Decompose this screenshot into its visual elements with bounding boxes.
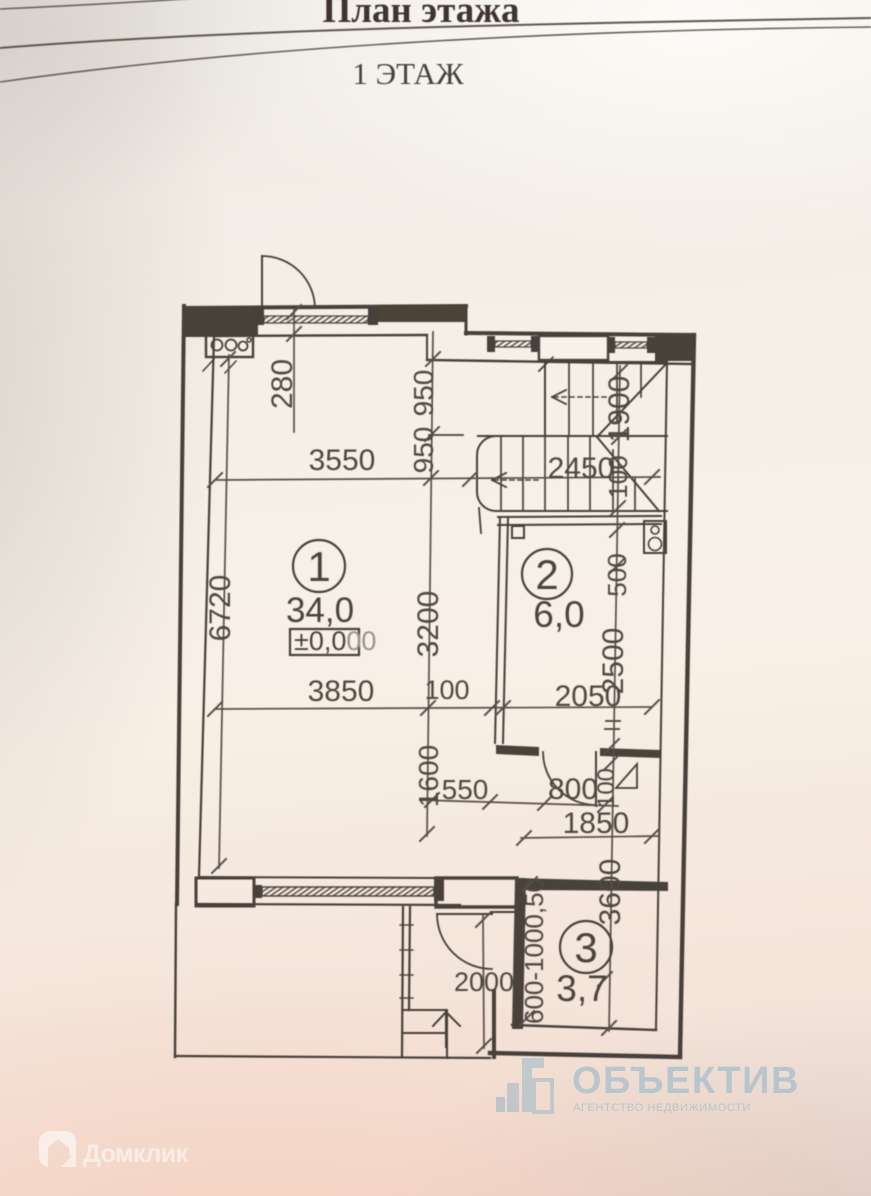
- svg-text:3550: 3550: [309, 444, 376, 477]
- logo Объектив: icon bars: [496, 1097, 505, 1112]
- svg-text:3200: 3200: [412, 591, 445, 658]
- room 1 number circle: [293, 540, 345, 592]
- wall: dark segment right of top window: [372, 306, 466, 322]
- room 3 wall: bottom inner line: [512, 1025, 656, 1030]
- stove: 4-burner in room 1 corner: [206, 334, 253, 357]
- wall: left outer face: [177, 306, 184, 904]
- header rule 1: [0, 18, 871, 48]
- door: entrance at top (swing arc): [262, 256, 315, 308]
- door: vestibule (leaf): [437, 913, 492, 915]
- svg-text:АГЕНТСТВО НЕДВИЖИМОСТИ: АГЕНТСТВО НЕДВИЖИМОСТИ: [573, 1102, 751, 1114]
- svg-text:1: 1: [307, 543, 330, 590]
- wall: entrance block between window and vestibule: [436, 878, 517, 907]
- bottom window cap left: [253, 885, 262, 898]
- svg-text:Домклик: Домклик: [83, 1140, 189, 1168]
- wall: top-left outer face: [184, 306, 466, 308]
- wall: right outer face: [680, 335, 694, 1056]
- svg-text:6,0: 6,0: [533, 594, 584, 635]
- dim slashes near room 3 left wall: [523, 877, 537, 891]
- svg-text:1900: 1900: [603, 376, 636, 443]
- wall: top-left corner block (filled): [184, 306, 258, 337]
- bottom window cap right: [434, 879, 444, 901]
- window: top wall of room 1 (hatched band): [264, 316, 368, 323]
- svg-text:6720: 6720: [204, 575, 237, 642]
- stairs: U-turn curve: [477, 436, 496, 511]
- dim line: 280 vertical: [293, 308, 295, 432]
- window 2 cap left: [607, 337, 615, 353]
- tick slashes below stove: [203, 359, 214, 371]
- door: vestibule (swing arc): [437, 914, 492, 969]
- elevation mark box: [290, 629, 359, 655]
- window cap right: [368, 307, 378, 325]
- stairs: lower treads: [500, 436, 502, 511]
- svg-text:100: 100: [603, 455, 633, 498]
- porch bottom line: [175, 1056, 490, 1058]
- room 2 corner notch: [512, 526, 524, 538]
- step line under entrance block: [491, 911, 517, 913]
- wall: dark vertical at vestibule right: [492, 991, 496, 1057]
- stairs: upper flight left edge: [544, 362, 546, 436]
- svg-text:2000: 2000: [454, 967, 514, 997]
- dim double tick above room 2 wall: [606, 720, 620, 722]
- stairs: middle landing line: [478, 435, 667, 437]
- svg-text:ОБЪЕКТИВ: ОБЪЕКТИВ: [572, 1060, 800, 1102]
- svg-text:3600: 3600: [594, 859, 627, 926]
- wall: left inner face: [199, 336, 214, 876]
- door: room 2 (leaf): [595, 752, 597, 806]
- room 3 wall: top (filled): [515, 878, 668, 891]
- window 1 cap left: [487, 336, 495, 352]
- svg-text:500: 500: [602, 553, 632, 596]
- svg-text:1600: 1600: [413, 745, 444, 807]
- svg-text:2500: 2500: [597, 628, 630, 695]
- stairs: walkline arrow upper flight: [554, 396, 612, 398]
- header rule top-left corner: [0, 0, 215, 9]
- wall: top-right corner block (filled): [655, 334, 694, 361]
- svg-text:34,0: 34,0: [286, 591, 354, 630]
- wall: top-right outer face: [466, 333, 694, 335]
- room 3 number circle: [560, 921, 612, 973]
- wall: bottom outer (dark): [490, 1053, 680, 1057]
- room 3 wall: left (filled): [512, 878, 526, 1029]
- wall: opening stub at room1/stair hall: [426, 335, 428, 360]
- dim line: 550/800 horizontal: [420, 800, 618, 806]
- stairs: walkline arrow lower flight: [494, 479, 540, 481]
- dim line: 2000 vertical: [483, 916, 484, 1048]
- wall: bottom-left corner block (outlined): [196, 878, 254, 906]
- svg-text:3: 3: [574, 924, 597, 971]
- svg-text:550: 550: [442, 774, 489, 805]
- wall: top-left inner face: [214, 335, 427, 336]
- svg-text:950: 950: [408, 427, 439, 474]
- wall: vestibule left (double with dashes): [402, 907, 403, 1057]
- header rule 2: [0, 27, 871, 82]
- svg-text:3,7: 3,7: [556, 968, 607, 1009]
- window 1 cap right: [531, 336, 539, 352]
- stairs: newel stub below U-turn: [479, 508, 481, 533]
- wall: right inner face: [656, 362, 667, 1028]
- stairs: upper treads: [568, 362, 570, 436]
- steps in vestibule: [404, 1009, 447, 1011]
- room 2 wall: top (double): [498, 516, 661, 517]
- svg-text:100: 100: [424, 675, 469, 705]
- logo Объектив: tall building: [522, 1058, 544, 1112]
- room 2 wall: left (double): [495, 517, 500, 743]
- svg-text:600-1000,50: 600-1000,50: [519, 878, 549, 1024]
- dim line: 3550/2450 horizontal: [215, 477, 660, 480]
- svg-text:1850: 1850: [563, 807, 630, 840]
- appliance (boiler/sink) in room 2: [644, 521, 666, 553]
- window cap left: [255, 307, 264, 325]
- svg-text:±0,000: ±0,000: [294, 626, 376, 656]
- svg-text:3850: 3850: [308, 675, 375, 708]
- window: top-right window 2 (hatched band): [615, 342, 647, 348]
- svg-text:1 ЭТАЖ: 1 ЭТАЖ: [352, 56, 463, 91]
- porch left line: [175, 904, 176, 1057]
- dim line: 6720 vertical left: [219, 355, 229, 868]
- room 2 wall: bottom left segment (filled): [496, 745, 539, 756]
- wall: bottom window top face: [199, 877, 436, 878]
- dim line: 1900/100/500/2500/100/3600 vertical: [609, 366, 620, 1031]
- wall: step between top sections: [465, 306, 468, 334]
- dim triangle marker right of room 2 door: [616, 764, 637, 788]
- stairs: break diagonal upper: [597, 363, 667, 437]
- stairs: bottom edge: [496, 510, 667, 512]
- window: bottom of room 1 (hatched band): [262, 887, 434, 896]
- wall: top-right inner face: [427, 360, 694, 364]
- stairs: corner slash: [539, 357, 553, 371]
- wall: bottom window lower face: [196, 904, 460, 905]
- stairs: block top edge: [545, 361, 667, 363]
- wall: middle block on top-right wall: [539, 336, 608, 360]
- room 2 number circle: [522, 549, 572, 599]
- dim line: 3850/100/2050 horizontal: [215, 707, 652, 709]
- svg-text:950: 950: [408, 370, 439, 417]
- logo Объектив: outlined building: [534, 1080, 552, 1112]
- dim line: 950/950/3200/1600 vertical: [427, 332, 433, 836]
- room 2 wall: bottom right segment (filled): [600, 748, 661, 758]
- svg-text:100: 100: [593, 768, 620, 808]
- svg-text:800: 800: [548, 773, 598, 806]
- svg-text:280: 280: [266, 359, 299, 409]
- dim line: 1850 horizontal: [521, 836, 658, 838]
- svg-text:2: 2: [535, 551, 558, 598]
- stair direction arrow (up): [445, 1012, 447, 1047]
- door: entrance at top (leaf): [261, 256, 263, 308]
- window: top-right window 1 (hatched band): [495, 341, 531, 347]
- window 2 cap right: [647, 337, 655, 353]
- door: room 2 (swing arc): [543, 752, 596, 805]
- stairs: break diagonal lower: [597, 437, 659, 511]
